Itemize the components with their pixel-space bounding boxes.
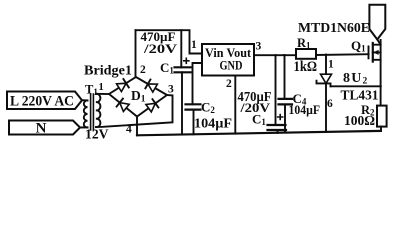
capacitor C4 plates — [279, 99, 293, 105]
diode top-left of bridge — [117, 83, 127, 91]
svg-text:GND: GND — [220, 58, 243, 72]
terminal flag L 220V AC — [7, 92, 82, 110]
svg-text:TL431: TL431 — [341, 87, 379, 102]
diode bottom-left of bridge — [120, 103, 130, 112]
wire bridge node 2 riser — [135, 30, 137, 77]
svg-text:3: 3 — [256, 41, 262, 53]
regulator U1 box — [202, 44, 254, 76]
svg-text:104µF: 104µF — [194, 115, 232, 130]
capacitor C2 plates — [186, 104, 201, 109]
diode bottom-right of bridge — [146, 103, 156, 112]
svg-text:104µF: 104µF — [289, 103, 321, 117]
svg-text:2: 2 — [226, 78, 232, 90]
svg-text:1: 1 — [328, 59, 334, 71]
svg-text:/20V: /20V — [143, 41, 178, 56]
svg-text:100Ω: 100Ω — [344, 113, 375, 128]
transformer T1 core — [91, 94, 94, 130]
terminal flag N — [9, 121, 80, 135]
plus sign C1 — [184, 58, 189, 63]
svg-text:1: 1 — [191, 39, 197, 51]
transistor Q1 MOSFET — [368, 46, 370, 60]
capacitor C1 polarized — [180, 30, 182, 67]
svg-text:Bridge1: Bridge1 — [84, 63, 132, 78]
svg-text:1kΩ: 1kΩ — [294, 59, 318, 75]
wire secondary top to bridge node 1 — [96, 93, 109, 95]
wire output rail — [254, 54, 369, 55]
capacitor C3 polarized — [275, 55, 277, 125]
wire drain/source vertical — [380, 40, 382, 106]
svg-text:4: 4 — [126, 123, 132, 135]
transformer T1 primary winding — [84, 100, 88, 127]
capacitor C4 wires — [284, 55, 287, 133]
transformer T1 secondary winding — [96, 94, 100, 127]
plus sign C3 — [278, 115, 283, 120]
wire flag L to transformer primary — [82, 99, 88, 101]
TL431 U2 symbol — [325, 55, 327, 132]
svg-text:12V: 12V — [85, 127, 109, 142]
svg-text:2: 2 — [140, 64, 146, 76]
wire regulator pin 2 down — [234, 76, 236, 134]
diode top-right of bridge — [148, 84, 158, 92]
wire bridge node 4 down — [136, 117, 138, 136]
output terminal flag — [369, 5, 385, 40]
capacitor C2 wires — [193, 63, 203, 134]
resistor R2 — [377, 106, 387, 127]
ground rail — [137, 131, 381, 135]
svg-text:6: 6 — [327, 98, 333, 110]
svg-text:N: N — [36, 120, 47, 136]
svg-text:MTD1N60E: MTD1N60E — [298, 21, 370, 36]
svg-text:3: 3 — [168, 84, 174, 96]
wire top rail — [136, 30, 203, 53]
wire TL431 ref to source — [331, 85, 381, 87]
wire secondary bottom to bridge node 3 — [96, 95, 173, 127]
bridge rectifier D1 diamond — [109, 77, 167, 117]
wire flag N to transformer primary — [80, 126, 88, 128]
svg-text:L 220V AC: L 220V AC — [10, 93, 74, 109]
svg-text:1: 1 — [99, 82, 104, 93]
resistor R1 — [296, 49, 316, 59]
